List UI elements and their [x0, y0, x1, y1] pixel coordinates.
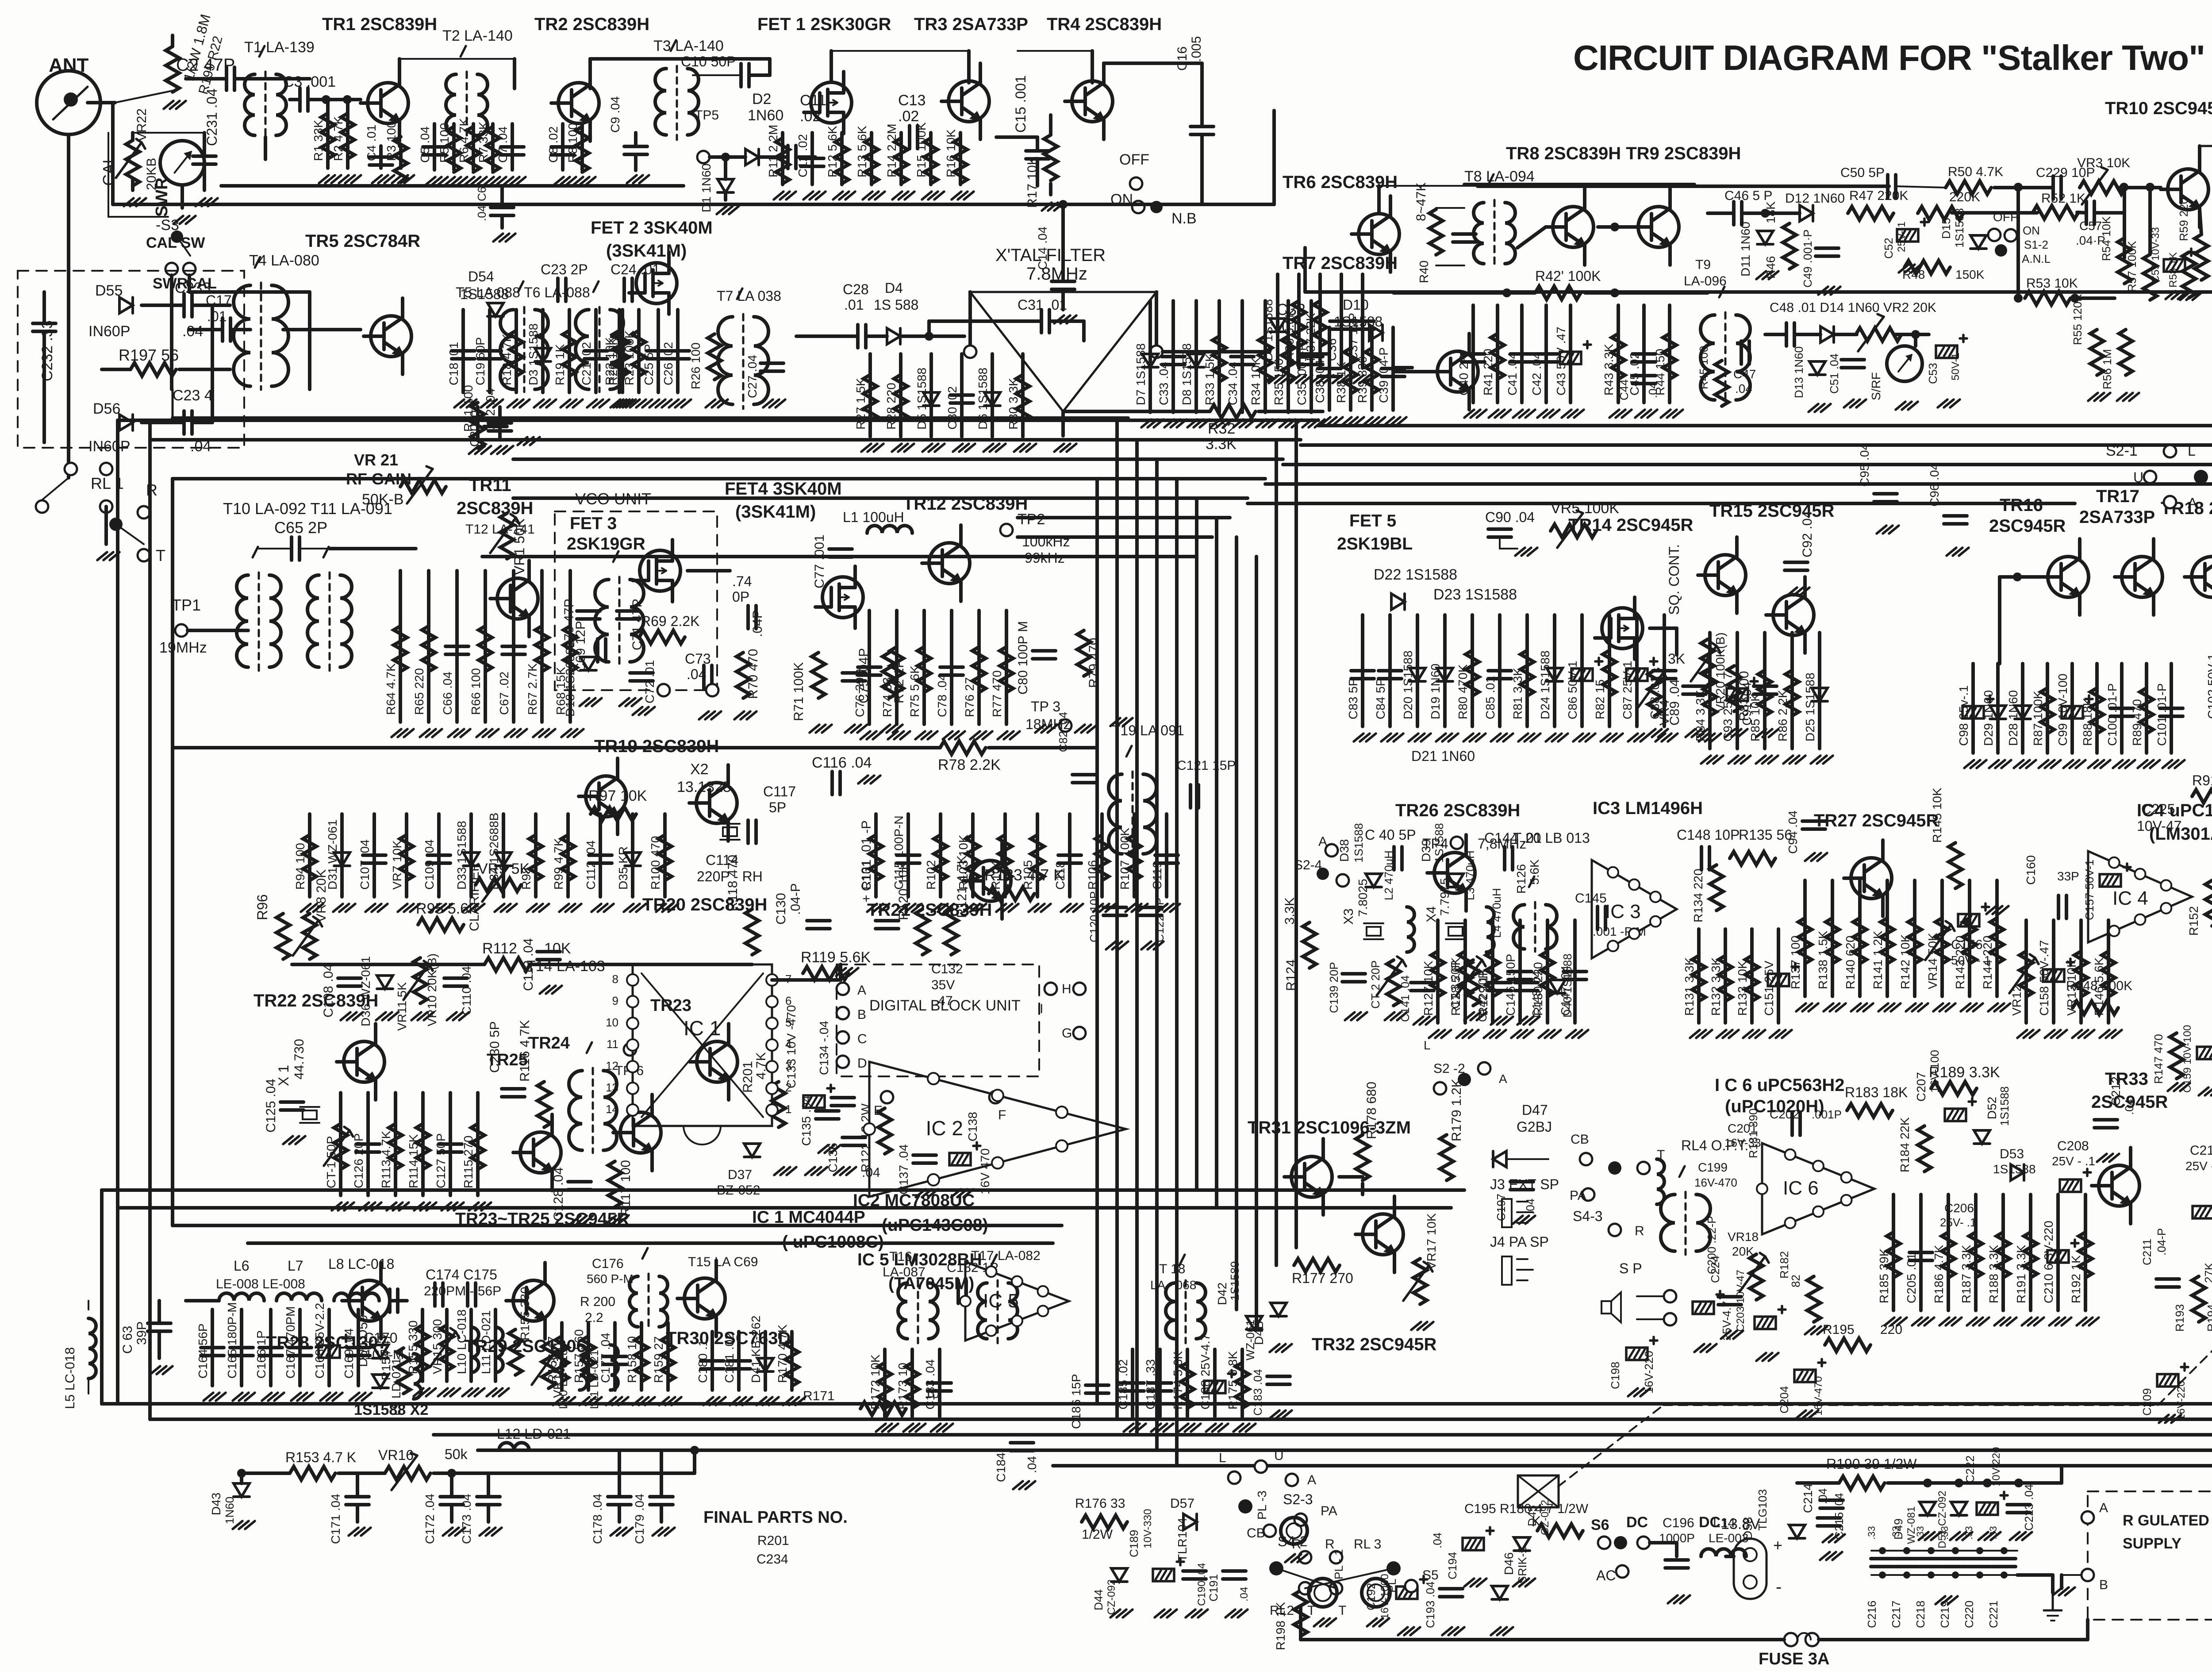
ground — [1728, 756, 1738, 764]
ground — [1609, 410, 1619, 418]
resistor R116 4.7K — [538, 1082, 551, 1127]
svg-text:C214: C214 — [1801, 1483, 1815, 1513]
ground — [487, 1388, 496, 1396]
ground — [734, 711, 744, 719]
svg-text:C84 5P: C84 5P — [1374, 678, 1387, 719]
svg-text:F: F — [998, 1108, 1006, 1122]
svg-text:L10 LC-018: L10 LC-018 — [455, 1310, 469, 1374]
svg-text:10V-220: 10V-220 — [1990, 1447, 2002, 1487]
potentiometer VR15 300 — [542, 1343, 555, 1388]
capacitor C233 .04 — [182, 294, 186, 317]
dashed box antenna switch unit — [18, 271, 244, 448]
ground — [1354, 375, 1363, 383]
wire — [764, 1332, 767, 1390]
ground — [1515, 548, 1525, 556]
svg-text:7.7975: 7.7975 — [1438, 878, 1452, 916]
svg-text:82: 82 — [1789, 1275, 1802, 1287]
svg-text:D2: D2 — [752, 91, 771, 108]
transistor TR23 2SC945R — [697, 1041, 737, 1082]
coil L11 LD-021 — [611, 1345, 618, 1390]
wire — [356, 1505, 359, 1522]
ground — [1367, 1618, 1377, 1626]
ground — [1517, 1017, 1527, 1025]
svg-text:C44: C44 — [1617, 379, 1631, 400]
wire — [1213, 1349, 1217, 1417]
wire — [959, 133, 962, 184]
ground — [1093, 904, 1103, 912]
capacitor C156 50V-1 — [1958, 914, 1979, 926]
svg-text:R78 2.2K: R78 2.2K — [938, 757, 1001, 773]
wire — [1361, 274, 1364, 368]
svg-text:R77 470: R77 470 — [990, 670, 1004, 717]
svg-text:.04: .04 — [1238, 1587, 1250, 1602]
wire — [398, 59, 401, 65]
svg-text:C209: C209 — [2140, 1388, 2154, 1416]
resistor R82 15 — [1603, 650, 1616, 696]
svg-text:LA-096: LA-096 — [1684, 274, 1727, 288]
wire — [1777, 929, 1780, 1023]
ground — [763, 400, 773, 407]
capacitor C184 .04 — [1010, 1441, 1033, 1444]
capacitor C2110 .33 — [1968, 1557, 1991, 1560]
svg-text:DC: DC — [1699, 1514, 1720, 1531]
svg-text:R22 10K: R22 10K — [603, 337, 617, 385]
transformer T7 LA-038 — [718, 317, 733, 404]
svg-text:BZ-052: BZ-052 — [717, 1183, 760, 1198]
resistor R30 3.3K — [1016, 375, 1029, 420]
wire — [1394, 370, 1430, 373]
svg-text:R188 3.3K: R188 3.3K — [1987, 1245, 2001, 1303]
resistor VR7 10K — [400, 835, 413, 880]
svg-text:A: A — [2099, 1501, 2108, 1515]
capacitor C135 .04 — [816, 1109, 839, 1113]
svg-text:R171: R171 — [803, 1389, 835, 1403]
transformer T10 LA-092 — [237, 575, 248, 667]
svg-text:D53: D53 — [2000, 1147, 2024, 1161]
svg-text:.04: .04 — [1646, 382, 1659, 398]
ground — [915, 731, 925, 739]
svg-text:C116 .04: C116 .04 — [812, 754, 872, 771]
svg-text:3K: 3K — [1668, 651, 1685, 667]
svg-text:.33: .33 — [1890, 1526, 1901, 1540]
ground — [1491, 1627, 1501, 1635]
transistor TR33 2SC945R — [2099, 1165, 2139, 1206]
FET 3 2SK19GR — [640, 550, 680, 591]
ground — [233, 1393, 242, 1401]
resistor R138 1.5K — [1826, 918, 1839, 964]
resistor R19 1K — [563, 330, 576, 376]
svg-text:R39 330: R39 330 — [1356, 356, 1369, 403]
resistor R89 470 — [2140, 688, 2153, 734]
capacitor C130 .04-P — [807, 919, 830, 922]
ground — [1805, 1326, 1815, 1334]
svg-text:D35 KR: D35 KR — [616, 846, 630, 890]
svg-text:PA: PA — [1570, 1188, 1586, 1203]
svg-text:C17: C17 — [206, 292, 232, 308]
wire — [560, 1323, 564, 1390]
svg-text:R82 15: R82 15 — [1593, 680, 1607, 719]
diode D49 WZ-081 — [1920, 1502, 1935, 1515]
svg-text:CLARIFIER: CLARIFIER — [467, 862, 482, 931]
resistor R143 220 — [1963, 918, 1976, 964]
ground — [1796, 1003, 1806, 1011]
resistor R127 10K — [1431, 951, 1444, 997]
svg-text:16V 470: 16V 470 — [978, 1149, 992, 1195]
svg-text:D52: D52 — [1985, 1097, 1999, 1119]
svg-text:C220: C220 — [1962, 1601, 1976, 1628]
capacitor C214 .04 — [1817, 1516, 1840, 1520]
ground — [627, 175, 637, 183]
wire — [1499, 537, 1501, 549]
resistor R55 120K — [2090, 330, 2104, 375]
svg-text:C96 .04: C96 .04 — [1928, 463, 1941, 507]
ground — [2049, 1318, 2059, 1325]
svg-text:.33: .33 — [1939, 1526, 1950, 1540]
transistor TR24 2SC945R — [620, 1112, 661, 1153]
svg-text:R26 100: R26 100 — [689, 342, 703, 389]
wire bus B2 — [434, 1433, 2212, 1437]
transistor TR1 2SC839H — [368, 83, 408, 123]
svg-text:L1 100uH: L1 100uH — [843, 509, 904, 525]
capacitor C183 .04 — [1267, 1375, 1290, 1378]
transistor TR28 2SC1307 — [349, 1280, 390, 1321]
resistor R12 5.6K — [835, 138, 849, 184]
capacitor C94 .04 — [1802, 819, 1825, 823]
svg-text:C101 .01-P: C101 .01-P — [2155, 683, 2169, 746]
svg-text:TR32 2SC945R: TR32 2SC945R — [1312, 1335, 1436, 1354]
wire bus V5 — [1195, 498, 1198, 1190]
wire — [541, 310, 545, 392]
capacitor C210 6.3V-220 — [2047, 1250, 2069, 1263]
wire — [131, 180, 134, 190]
svg-text:C92 .04: C92 .04 — [1800, 511, 1815, 557]
wire — [488, 310, 492, 392]
svg-text:CT-1 50P: CT-1 50P — [324, 1136, 338, 1188]
svg-text:R186 4.7K: R186 4.7K — [1932, 1245, 1946, 1303]
svg-text:C184: C184 — [994, 1452, 1008, 1482]
resistor R189 3.3K — [1931, 1082, 1977, 1095]
ground — [426, 177, 435, 185]
wire — [1569, 305, 1572, 403]
capacitor C110 .04 — [444, 976, 467, 980]
wire — [1708, 211, 1734, 215]
ground — [1978, 1532, 1988, 1540]
dashed box VCO UNIT — [555, 511, 717, 690]
ground — [462, 1388, 472, 1396]
svg-text:.04-P: .04-P — [2155, 1228, 2168, 1256]
ground — [430, 904, 440, 912]
svg-text:R33 1.5K: R33 1.5K — [1203, 353, 1217, 405]
svg-text:13.1325: 13.1325 — [677, 779, 731, 795]
capacitor C72 .01 — [630, 671, 653, 675]
ground — [858, 776, 868, 784]
wire — [1952, 211, 2037, 215]
wire — [1339, 1175, 1363, 1179]
diode D12 1N60 — [1800, 205, 1813, 221]
svg-text:D9 1S1588: D9 1S1588 — [1261, 299, 1275, 361]
svg-text:TR8 2SC839H TR9 2SC839H: TR8 2SC839H TR9 2SC839H — [1506, 144, 1741, 163]
crystal X1 44.730 — [300, 1106, 319, 1108]
svg-text:R58 1K: R58 1K — [2167, 252, 2179, 288]
ground — [2166, 291, 2175, 299]
svg-text:D42: D42 — [1215, 1283, 1229, 1305]
ground — [1967, 1318, 1977, 1325]
transistor TR29 2SC1306 — [513, 1280, 554, 1321]
ground — [951, 1189, 961, 1197]
relay K — [1518, 1475, 1559, 1507]
ground — [783, 1397, 793, 1405]
ground — [233, 1521, 242, 1529]
svg-text:(3SK41M): (3SK41M) — [606, 241, 687, 261]
crystal X2 13.1325 — [720, 823, 740, 825]
svg-text:TR10 2SC945R: TR10 2SC945R — [2105, 99, 2212, 118]
IC U6 uPC563H2 — [1762, 1143, 1874, 1234]
wire — [450, 1505, 453, 1522]
resistor R106 — [1095, 835, 1109, 880]
svg-text:7.8025: 7.8025 — [1356, 879, 1370, 917]
ground — [580, 698, 589, 706]
svg-text:R67 2.7K: R67 2.7K — [526, 663, 539, 715]
ground — [1256, 419, 1266, 427]
wire — [1919, 1195, 1923, 1310]
ground — [573, 177, 583, 185]
wire — [540, 571, 544, 722]
capacitor C91 .04 — [1754, 684, 1777, 688]
capacitor C20 .04 — [484, 417, 507, 420]
svg-text:A: A — [2188, 495, 2197, 511]
svg-text:H: H — [1062, 982, 1071, 996]
svg-text:C122 5P: C122 5P — [1153, 898, 1166, 942]
wire — [899, 354, 902, 437]
resistor R44 150 — [1663, 334, 1676, 379]
wire — [131, 133, 134, 140]
svg-text:R100 470: R100 470 — [649, 836, 662, 890]
svg-text:10K: 10K — [544, 940, 571, 957]
dashed box REGULATED DC POWER SUPPLY — [2088, 1491, 2212, 1620]
IC U4 uPC157A — [2088, 851, 2192, 942]
speaker SP — [1601, 1301, 1611, 1314]
wire — [500, 186, 504, 207]
capacitor C137 .04 — [913, 1153, 936, 1157]
ground — [1314, 1618, 1324, 1626]
wire — [613, 1323, 617, 1390]
potentiometer VR20 100K(B) — [1701, 639, 1714, 685]
capacitor C16 .005 — [1190, 125, 1214, 128]
wire bus V2 — [1135, 440, 1139, 1435]
svg-text:VR17 10K: VR17 10K — [1425, 1213, 1438, 1270]
resistor R52 1K — [2033, 206, 2078, 219]
svg-text:C30 .02: C30 .02 — [945, 386, 959, 430]
wire — [1940, 880, 1944, 996]
svg-text:T14 LA-103: T14 LA-103 — [526, 958, 605, 975]
wire — [487, 1473, 490, 1496]
svg-text:IC 2: IC 2 — [926, 1117, 963, 1140]
diode D2 1N60 — [745, 149, 759, 165]
svg-text:S4-3: S4-3 — [1573, 1208, 1603, 1224]
wire — [1377, 186, 1381, 214]
resistor R17 10K — [1044, 135, 1057, 181]
wire — [1637, 1295, 1663, 1297]
transformer T2 LA-140 — [446, 74, 456, 135]
resistor R179 1.2K — [1440, 1135, 1453, 1180]
wire — [1133, 814, 1136, 897]
diode D22 1S1588 — [1391, 594, 1405, 610]
ground — [892, 444, 902, 452]
transistor TR21 2SC839H — [970, 860, 1011, 901]
svg-text:2SC839H: 2SC839H — [457, 499, 533, 518]
resistor R188 3.3K — [1997, 1232, 2010, 1278]
svg-text:C188 25V-4.7: C188 25V-4.7 — [1198, 1334, 1212, 1410]
diode D13 1N60 — [1809, 361, 1825, 375]
ground — [173, 216, 183, 224]
svg-text:D28 1N60: D28 1N60 — [2006, 690, 2020, 746]
ground — [2014, 760, 2024, 768]
svg-text:C156: C156 — [1951, 937, 1983, 952]
svg-text:IC 6: IC 6 — [1783, 1177, 1819, 1199]
svg-text:C217: C217 — [1889, 1601, 1903, 1628]
relay contacts RL2 RL3 — [1269, 1561, 1283, 1575]
svg-text:D21 1N60: D21 1N60 — [1411, 748, 1475, 764]
ground — [1442, 1627, 1452, 1635]
wire — [42, 478, 69, 500]
ground — [2100, 1030, 2109, 1038]
ground — [1491, 1017, 1501, 1025]
wire — [502, 814, 505, 897]
ground — [669, 400, 679, 407]
ground — [1811, 756, 1820, 764]
wire — [116, 524, 144, 544]
resistor R187 3.3K — [1969, 1232, 1982, 1278]
capacitor C85 .01 — [1488, 669, 1511, 672]
capacitor C51 .04 — [1841, 358, 1864, 361]
capacitor C158 50V-.47 — [2043, 969, 2064, 982]
wire — [2079, 920, 2083, 1023]
wire — [588, 59, 592, 88]
resistor R79 470 — [1077, 630, 1091, 676]
wire — [1968, 880, 1971, 996]
ground — [1899, 265, 1909, 273]
wire — [1858, 880, 1862, 996]
diode D59 1S1588 — [373, 1375, 388, 1388]
transistor TR18 2SC945R — [2192, 557, 2212, 597]
capacitor C32 .01 — [1288, 342, 1292, 365]
svg-text:.33: .33 — [1963, 1526, 1974, 1540]
IC U3 LM1496H — [1592, 860, 1677, 958]
resistor R59 220 — [2195, 234, 2208, 280]
wire — [1061, 204, 1065, 281]
ground — [1225, 1610, 1235, 1617]
coil L12 LD-021 — [499, 1443, 529, 1450]
wire top rail — [1478, 184, 1889, 188]
capacitor C142 20P — [1488, 981, 1511, 984]
wire — [1036, 137, 1039, 151]
svg-text:S2-1: S2-1 — [2106, 442, 2138, 459]
ground — [359, 1202, 369, 1210]
svg-text:R124: R124 — [1284, 959, 1298, 991]
svg-text:D25 1S1588: D25 1S1588 — [1803, 672, 1817, 741]
svg-text:.001P: .001P — [1812, 1108, 1842, 1121]
svg-text:C138: C138 — [966, 1112, 979, 1141]
svg-text:R69 2.2K: R69 2.2K — [641, 613, 699, 629]
wire — [1947, 1195, 1950, 1310]
resistor R6 4.7K — [467, 127, 480, 172]
ground — [2162, 760, 2172, 768]
ground — [1363, 417, 1373, 425]
svg-text:T16: T16 — [889, 1249, 912, 1264]
wire — [2000, 575, 2041, 579]
ground — [2072, 1030, 2082, 1038]
resistor R39 330 — [1365, 348, 1379, 394]
svg-text:L8 LC-018: L8 LC-018 — [328, 1256, 394, 1272]
antenna ANT — [37, 71, 100, 134]
ground — [553, 1397, 563, 1405]
svg-text:TR5 2SC784R: TR5 2SC784R — [305, 231, 420, 251]
wire bus B0 — [102, 1402, 2212, 1406]
svg-text:.04P: .04P — [750, 610, 765, 637]
ground — [561, 729, 571, 737]
resistor R144 220 — [1990, 918, 2004, 964]
svg-text:-S3: -S3 — [156, 217, 179, 234]
svg-text:R131 3.3K: R131 3.3K — [1682, 957, 1696, 1016]
svg-text:5: 5 — [785, 1016, 791, 1029]
svg-text:R45 100: R45 100 — [1697, 346, 1710, 389]
svg-text:FINAL PARTS NO.: FINAL PARTS NO. — [703, 1508, 848, 1527]
svg-text:VR9 5K: VR9 5K — [478, 860, 530, 877]
wire — [1388, 615, 1392, 726]
ground — [1809, 404, 1818, 412]
svg-text:R11 2.2M: R11 2.2M — [766, 125, 780, 177]
resistor R33 1.5K — [1213, 336, 1226, 382]
transistor TR20 2SC839H — [696, 783, 737, 823]
capacitor C190 .04 — [1183, 1569, 1206, 1573]
wire — [461, 310, 465, 392]
wire — [157, 1301, 161, 1323]
capacitor C164 56P — [201, 1346, 224, 1349]
capacitor C182 1P — [956, 1280, 960, 1303]
capacitor C172 .04 — [440, 1495, 463, 1498]
wire — [1299, 1606, 1302, 1640]
ground — [983, 444, 993, 452]
wire — [566, 814, 570, 897]
svg-text:C: C — [857, 1032, 867, 1046]
capacitor C173 .04 — [477, 1495, 500, 1498]
svg-text:D46: D46 — [1502, 1552, 1516, 1575]
capacitor C44 .04 — [1632, 374, 1655, 377]
diode D60 1S1588 — [373, 1345, 388, 1358]
switch S3 CAL SW — [171, 230, 183, 243]
connector DC jack — [1734, 1539, 1767, 1599]
svg-text:R132 3.3K: R132 3.3K — [1709, 957, 1723, 1016]
svg-text:B: B — [857, 1007, 866, 1022]
svg-text:C50 5P: C50 5P — [1840, 165, 1885, 180]
capacitor C160 33P — [2057, 895, 2060, 918]
ground — [810, 725, 819, 733]
wire — [1520, 305, 1524, 403]
resistor R123 4.7K — [989, 887, 1034, 900]
capacitor C187 .33 — [1148, 1381, 1171, 1385]
svg-text:R154 47: R154 47 — [379, 1333, 393, 1380]
svg-text:D24 1S1588: D24 1S1588 — [1538, 650, 1552, 719]
capacitor C38 .04 — [1318, 367, 1341, 370]
resistor R172 10K — [878, 1363, 891, 1408]
wire bus M0 — [102, 1188, 1464, 1192]
svg-text:TP1: TP1 — [172, 596, 201, 614]
ground — [1628, 1388, 1638, 1396]
svg-text:C7 .04: C7 .04 — [496, 127, 510, 163]
wire — [2062, 1574, 2081, 1576]
wire bus V6 — [1215, 518, 1218, 1208]
svg-text:0P: 0P — [732, 589, 749, 605]
